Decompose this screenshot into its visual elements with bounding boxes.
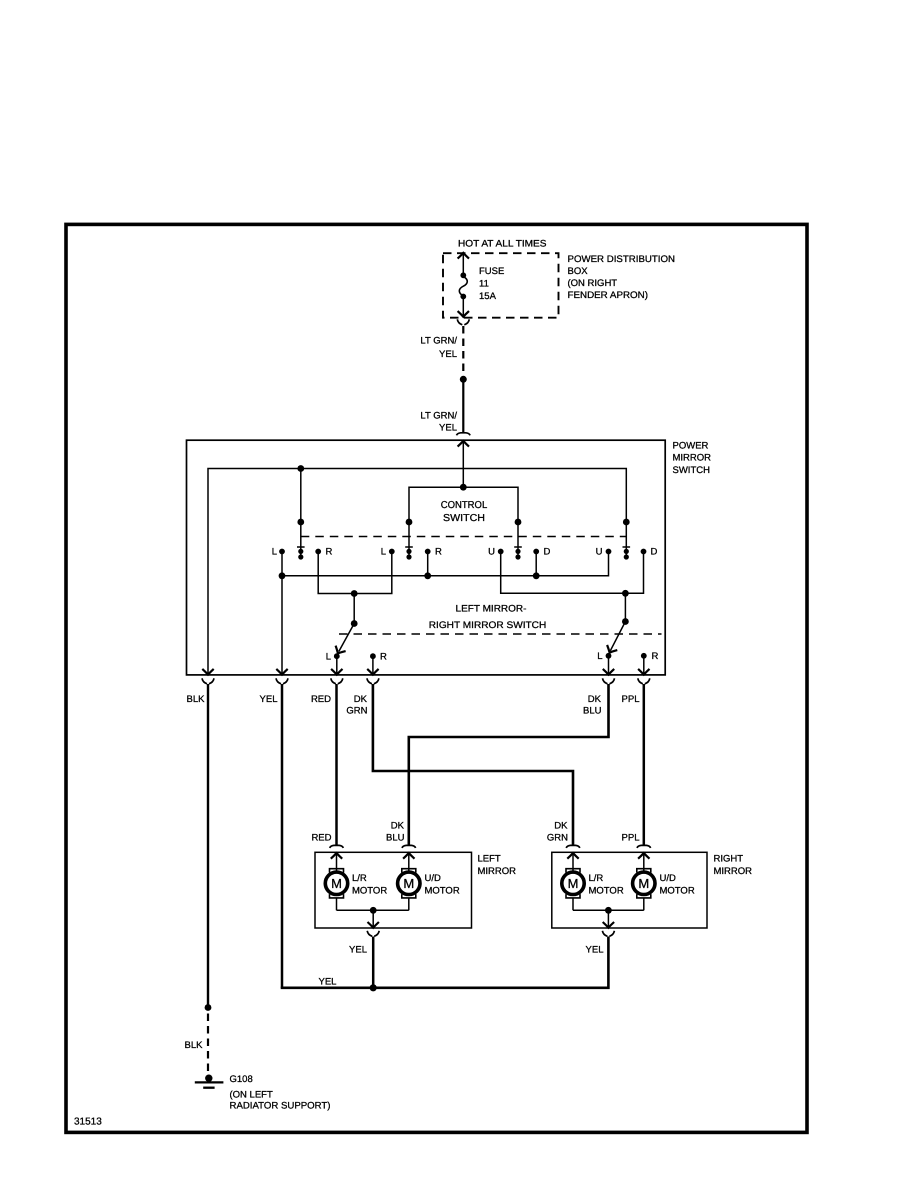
svg-text:L: L [272, 547, 277, 558]
junction pivot 2 dot [406, 519, 413, 526]
junction bus2/R2 [424, 572, 431, 579]
mechanical gang dashed link (control switch) [301, 536, 627, 538]
svg-text:RED: RED [311, 694, 331, 705]
splice on BLK [205, 1004, 212, 1011]
svg-text:M: M [403, 876, 414, 891]
wire R1-L2 link [318, 552, 392, 594]
svg-text:M: M [638, 876, 649, 891]
junction bus B+ / pivot 1 [297, 465, 304, 472]
wire LT GRN/YEL (solid segment) [462, 379, 464, 432]
svg-text:SWITCH: SWITCH [673, 465, 711, 476]
power distribution box (dashed) [443, 253, 559, 318]
connector below fuse box [457, 319, 469, 325]
svg-text:YEL: YEL [439, 349, 457, 360]
connectors below mirror boxes [367, 931, 379, 937]
wire YEL left mirror drop [372, 937, 375, 988]
svg-text:PPL: PPL [622, 833, 640, 844]
svg-text:U/D: U/D [660, 873, 677, 884]
svg-text:R: R [435, 547, 442, 558]
svg-text:L/R: L/R [589, 873, 604, 884]
svg-text:L: L [597, 651, 602, 662]
wire RED exit stub [336, 656, 338, 675]
terminal D4 [641, 549, 647, 555]
svg-text:31513: 31513 [74, 1117, 102, 1128]
junction bus2/D3 [533, 572, 540, 579]
svg-text:MOTOR: MOTOR [352, 886, 387, 897]
svg-text:LEFT MIRROR-: LEFT MIRROR- [456, 604, 527, 615]
terminal R1 [315, 549, 321, 555]
junction supply to control rail [460, 484, 467, 491]
svg-text:PPL: PPL [622, 694, 640, 705]
switch contact 2 (wiper) [405, 547, 413, 560]
svg-text:YEL: YEL [439, 423, 457, 434]
svg-text:POWER DISTRIBUTION: POWER DISTRIBUTION [568, 254, 676, 265]
wire bus B+ upper rail [208, 469, 626, 676]
wire DK BLU exit stub [608, 656, 610, 675]
motor U/D left mirror [398, 853, 420, 910]
svg-text:YEL: YEL [349, 945, 367, 956]
wire left lever stem [353, 594, 355, 624]
wire right mirror common drop [607, 910, 609, 928]
svg-text:DK: DK [354, 694, 368, 705]
switch contact 4 (wiper) [623, 547, 631, 560]
svg-text:BLU: BLU [583, 706, 602, 717]
contact R right lever [641, 653, 647, 659]
svg-text:GRN: GRN [547, 833, 568, 844]
right lever arm (to L) [610, 622, 625, 651]
wire BLK down [207, 684, 209, 1008]
border frame [66, 224, 807, 1132]
junction left lever pivot [351, 620, 358, 627]
exit arrows at switch bottom [202, 669, 213, 675]
wire YEL from switch to yel bus [281, 684, 284, 988]
svg-text:MIRROR: MIRROR [673, 453, 712, 464]
junction U3-D4 link / right lever stem [622, 590, 629, 597]
svg-text:R: R [652, 651, 659, 662]
wire left mirror common drop [372, 910, 374, 928]
wire LT GRN/YEL (dashed segment) [462, 326, 464, 372]
wire DK GRN crossover to right mirror [373, 684, 573, 845]
svg-text:FENDER APRON): FENDER APRON) [568, 290, 649, 301]
svg-text:R: R [380, 652, 387, 663]
svg-text:POWER: POWER [673, 441, 709, 452]
switch contact 3 (wiper) [514, 547, 522, 560]
wire pivot 1 stem [300, 469, 302, 548]
svg-text:MOTOR: MOTOR [589, 886, 624, 897]
svg-text:G108: G108 [230, 1074, 253, 1085]
svg-text:RED: RED [311, 833, 331, 844]
svg-text:MOTOR: MOTOR [425, 886, 460, 897]
terminal L1 [279, 549, 285, 555]
terminal U4 [606, 549, 612, 555]
wire D3 drop [535, 552, 537, 576]
wire control switch feed rail [409, 487, 518, 547]
wire U3-D4 link [501, 552, 644, 594]
svg-text:(ON RIGHT: (ON RIGHT [568, 278, 618, 289]
svg-text:MOTOR: MOTOR [660, 886, 695, 897]
left lever arm (to L) [339, 624, 354, 652]
svg-text:YEL: YEL [319, 977, 337, 988]
svg-text:M: M [568, 876, 579, 891]
svg-text:LT GRN/: LT GRN/ [420, 336, 457, 347]
mechanical gang dashed link (mirror select) [339, 633, 662, 635]
connector above power mirror switch [457, 433, 471, 436]
wire L1 to YEL exit column [281, 552, 283, 676]
connectors below switch box [202, 678, 214, 684]
wire left mirror common [337, 909, 409, 911]
svg-text:DK: DK [588, 694, 602, 705]
junction pivot 1 dot [297, 519, 304, 526]
contact R left lever [370, 653, 376, 659]
svg-text:D: D [544, 547, 551, 558]
svg-text:L/R: L/R [352, 873, 367, 884]
svg-text:FUSE: FUSE [479, 266, 504, 277]
wire RED down to left mirror [335, 684, 338, 845]
svg-text:D: D [651, 547, 658, 558]
terminal D3 [533, 549, 539, 555]
wire DK BLU crossover to left mirror [409, 684, 609, 845]
wire DK GRN exit stub [372, 656, 374, 675]
motor U/D right mirror [633, 853, 655, 910]
svg-text:BLU: BLU [386, 833, 405, 844]
svg-text:BLK: BLK [187, 694, 206, 705]
contact L left lever [334, 653, 340, 659]
right mirror box [552, 852, 707, 928]
wire YEL bus and right mirror drop [282, 937, 608, 988]
switch contact 1 (wiper) [297, 547, 305, 560]
svg-text:M: M [331, 876, 342, 891]
wire PPL down to right mirror [643, 684, 646, 845]
svg-text:HOT AT ALL TIMES: HOT AT ALL TIMES [458, 239, 547, 250]
svg-text:R: R [326, 547, 333, 558]
wire bus2 L1-R2-D3-U4 [282, 552, 609, 576]
splice node S (dot) [460, 376, 467, 383]
terminal R2 [425, 549, 431, 555]
svg-text:RIGHT: RIGHT [714, 854, 744, 865]
wire supply feed inside switch [462, 441, 464, 487]
connectors above mirror boxes [330, 845, 344, 848]
svg-text:LT GRN/: LT GRN/ [420, 411, 457, 422]
svg-text:CONTROL: CONTROL [441, 500, 488, 511]
ground G108 [195, 1075, 224, 1088]
left mirror box [315, 852, 472, 928]
svg-text:(ON LEFT: (ON LEFT [230, 1089, 273, 1100]
svg-text:15A: 15A [479, 291, 497, 302]
svg-text:U: U [488, 547, 495, 558]
motor L/R left mirror [325, 853, 347, 910]
svg-text:LEFT: LEFT [478, 854, 501, 865]
svg-text:GRN: GRN [346, 706, 367, 717]
junction right mirror common [605, 907, 612, 914]
svg-text:U: U [596, 547, 603, 558]
svg-text:DK: DK [554, 821, 568, 832]
wire PPL exit stub [643, 656, 645, 675]
fuse F11 15A [458, 253, 469, 317]
svg-text:11: 11 [479, 279, 489, 290]
terminal U3 [498, 549, 504, 555]
svg-text:BOX: BOX [568, 266, 589, 277]
svg-text:YEL: YEL [260, 694, 278, 705]
svg-text:BLK: BLK [185, 1040, 204, 1051]
svg-text:YEL: YEL [586, 945, 604, 956]
svg-text:L: L [381, 547, 386, 558]
contact L right lever [606, 653, 612, 659]
entry arrows in mirror boxes [331, 853, 342, 859]
junction YEL bus [370, 984, 377, 991]
svg-text:U/D: U/D [425, 873, 442, 884]
junction R1-L2 link / left lever stem [351, 590, 358, 597]
arrow into switch (supply entry) [458, 441, 469, 447]
wire right lever stem [624, 593, 626, 621]
svg-text:MIRROR: MIRROR [714, 866, 753, 877]
svg-text:MIRROR: MIRROR [478, 866, 517, 877]
svg-text:RIGHT MIRROR SWITCH: RIGHT MIRROR SWITCH [429, 620, 547, 631]
junction pivot 3 dot [515, 519, 522, 526]
svg-text:DK: DK [391, 821, 405, 832]
junction left mirror common [370, 907, 377, 914]
power mirror switch box [187, 440, 666, 675]
junction pivot 4 dot [623, 519, 630, 526]
wire BLK dashed to ground [207, 1014, 209, 1072]
svg-text:SWITCH: SWITCH [443, 513, 485, 524]
svg-text:RADIATOR SUPPORT): RADIATOR SUPPORT) [230, 1101, 331, 1112]
wire right mirror common [573, 909, 644, 911]
terminal L2 [389, 549, 395, 555]
svg-text:L: L [326, 652, 331, 663]
wire R2 drop [427, 552, 429, 576]
motor L/R right mirror [562, 853, 584, 910]
junction bus2/L1 [279, 572, 286, 579]
junction right lever pivot [622, 618, 629, 625]
